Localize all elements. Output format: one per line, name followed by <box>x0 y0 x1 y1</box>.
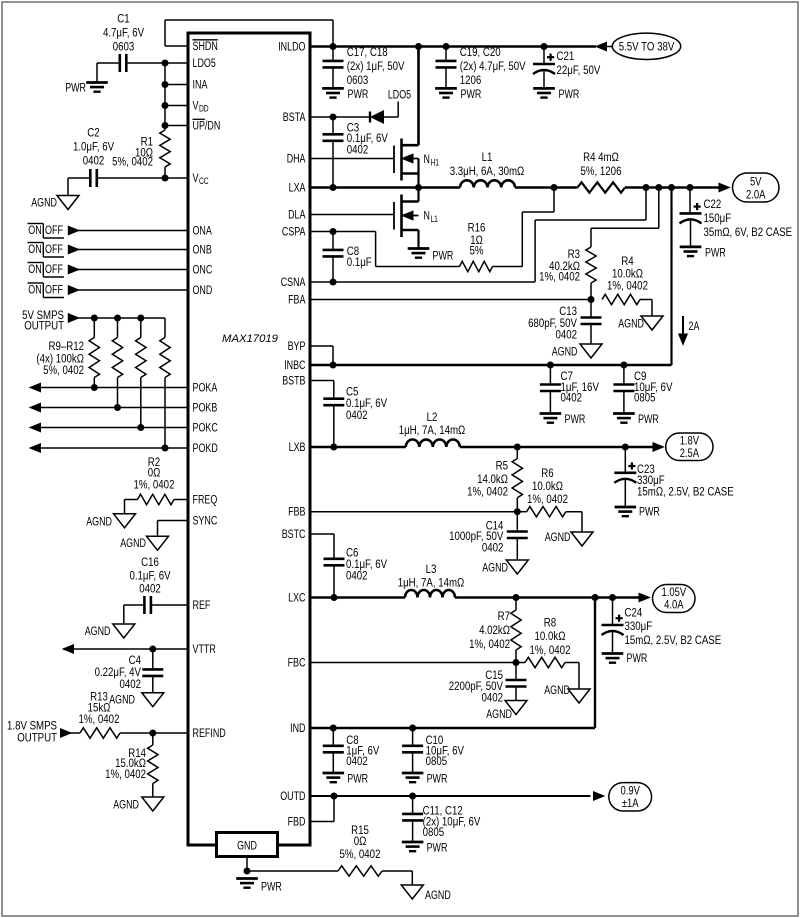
svg-text:0402: 0402 <box>83 154 105 168</box>
ground AGND (C13) <box>552 344 602 358</box>
svg-text:1206: 1206 <box>460 73 482 87</box>
svg-text:ON: ON <box>28 262 41 276</box>
pin BYP <box>288 339 306 353</box>
ground AGND (R6) <box>545 530 593 546</box>
capacitor C1 <box>103 12 145 73</box>
wire DLA <box>310 214 394 216</box>
svg-text:AGND: AGND <box>86 514 112 528</box>
svg-text:0.1μF: 0.1μF <box>347 255 372 269</box>
wire ONA <box>68 226 188 235</box>
node rail/R16 <box>551 184 558 191</box>
wire rail to NH1 drain <box>417 47 420 146</box>
switch ON/OFF (ONA) <box>28 223 65 238</box>
ground PWR (C17) <box>322 87 368 101</box>
svg-text:FBD: FBD <box>288 815 306 829</box>
transistor NH1 <box>394 139 439 188</box>
wire REF <box>124 605 188 624</box>
wire LXB output <box>460 446 654 449</box>
node LDO5 net label <box>388 88 411 102</box>
ground AGND (R8) <box>544 683 590 703</box>
svg-text:±1A: ±1A <box>622 796 639 810</box>
node GND star <box>244 868 251 875</box>
node 5.5V TO 38V input <box>596 33 681 59</box>
svg-text:OFF: OFF <box>45 283 63 297</box>
wire LXC output <box>455 596 640 599</box>
wire FBA <box>310 299 591 301</box>
svg-text:R4 4mΩ: R4 4mΩ <box>583 150 619 164</box>
node POKD/R12 <box>162 445 169 452</box>
ground AGND (R4) <box>618 316 663 331</box>
wire R16 to 5V rail <box>493 188 555 267</box>
ground AGND (C14) <box>482 560 528 575</box>
svg-text:PWR: PWR <box>627 651 648 665</box>
pin POKB <box>193 401 218 415</box>
svg-text:FREQ: FREQ <box>193 493 218 507</box>
resistor R4 (10.0k) <box>602 254 652 316</box>
svg-text:OFF: OFF <box>45 223 63 237</box>
svg-text:H1: H1 <box>430 157 439 167</box>
node rail/R3 <box>655 184 662 191</box>
capacitor C11 C12 <box>402 796 481 842</box>
wire L1 to R4 <box>515 186 578 189</box>
wire POKA <box>30 383 188 392</box>
capacitor C15 <box>449 663 527 705</box>
svg-text:0805: 0805 <box>426 754 448 768</box>
node POKC/R11 <box>137 424 144 431</box>
svg-text:N: N <box>424 208 430 222</box>
svg-text:SHDN: SHDN <box>193 39 218 53</box>
svg-text:0402: 0402 <box>482 540 504 554</box>
capacitor C4 <box>95 649 164 693</box>
node IND/C10 <box>409 725 416 732</box>
ground PWR (C7) <box>540 412 586 426</box>
capacitor C8 (CSPA) <box>323 232 373 283</box>
svg-text:PWR: PWR <box>559 87 580 101</box>
svg-text:MAX17019: MAX17019 <box>222 333 279 345</box>
wire LDO5 bus to VCC <box>165 63 188 130</box>
node BYP/INBC <box>330 362 337 369</box>
svg-text:IND: IND <box>290 721 305 735</box>
svg-text:BSTA: BSTA <box>283 110 306 124</box>
svg-text:ONB: ONB <box>193 243 212 257</box>
node rail/C17 <box>330 43 337 50</box>
wire DHA <box>310 158 394 160</box>
svg-text:0805: 0805 <box>423 825 445 839</box>
capacitor C14 <box>449 512 528 560</box>
ground PWR (C23) <box>615 505 660 519</box>
node rail/C21 <box>541 43 548 50</box>
svg-text:OUTPUT: OUTPUT <box>17 730 57 744</box>
svg-text:DD: DD <box>199 104 209 114</box>
ground PWR (C19) <box>435 87 481 101</box>
svg-text:0402: 0402 <box>482 690 504 704</box>
pin LXB <box>289 440 306 454</box>
svg-text:4.0A: 4.0A <box>664 598 684 612</box>
svg-text:R7: R7 <box>498 609 510 623</box>
ground AGND (C2) <box>31 196 79 210</box>
svg-text:0402: 0402 <box>561 390 583 404</box>
pin ONB <box>193 243 212 257</box>
pin INBC <box>284 358 305 372</box>
wire C2 to AGND <box>68 178 90 196</box>
wire POKD <box>30 444 188 453</box>
node rail R11 <box>137 315 144 322</box>
svg-text:1%, 0402: 1%, 0402 <box>530 643 571 657</box>
svg-text:CSPA: CSPA <box>282 225 306 239</box>
node 5V 2.0A output <box>719 173 779 202</box>
pin VDD <box>193 99 209 114</box>
pin SYNC <box>193 514 218 528</box>
svg-text:C17, C18: C17, C18 <box>347 45 388 59</box>
node 2A current annotation <box>679 316 700 345</box>
switch ON/OFF (ONC) <box>28 262 65 277</box>
svg-text:ONC: ONC <box>193 263 213 277</box>
svg-text:(2x) 4.7μF, 50V: (2x) 4.7μF, 50V <box>460 59 526 73</box>
svg-text:0402: 0402 <box>347 142 369 156</box>
pin FBC <box>288 656 306 670</box>
node 5V SMPS OUTPUT input <box>22 308 79 333</box>
svg-text:0603: 0603 <box>113 40 135 54</box>
node INA junction <box>162 81 169 88</box>
wire 1.05V to IND <box>310 598 595 729</box>
node LXA/NH1 <box>415 184 422 191</box>
switch ON/OFF (ONB) <box>28 242 65 257</box>
diode D1 (LDO5 to BSTA) <box>370 102 398 124</box>
svg-text:L3: L3 <box>426 562 437 576</box>
pin FBB <box>288 505 305 519</box>
wire FBD <box>310 796 334 822</box>
capacitor C16 <box>129 555 171 614</box>
capacitor C10 <box>402 728 464 773</box>
node LDO5/INA junction <box>162 60 169 67</box>
ground AGND (R15) <box>401 885 451 902</box>
wire LDO5 net <box>97 63 188 83</box>
svg-text:FBA: FBA <box>288 293 306 307</box>
svg-text:5%, 0402: 5%, 0402 <box>112 155 153 169</box>
ground PWR (NL1) <box>408 249 454 263</box>
svg-text:2A: 2A <box>689 319 700 333</box>
pin DHA <box>287 152 306 166</box>
svg-text:FBB: FBB <box>288 505 305 519</box>
wire ONC <box>68 265 188 274</box>
svg-text:BYP: BYP <box>288 339 306 353</box>
svg-text:N: N <box>424 152 430 166</box>
svg-text:5V: 5V <box>750 174 762 188</box>
ground PWR (C22) <box>680 245 726 259</box>
svg-text:PWR: PWR <box>427 840 448 854</box>
svg-text:10.0kΩ: 10.0kΩ <box>535 629 566 643</box>
svg-text:GND: GND <box>237 838 257 852</box>
svg-text:LXC: LXC <box>288 591 305 605</box>
wire FBC <box>310 662 516 664</box>
resistor R5 <box>467 447 522 512</box>
svg-text:POKB: POKB <box>193 401 218 415</box>
svg-text:1μH, 7A, 14mΩ: 1μH, 7A, 14mΩ <box>398 575 465 589</box>
capacitor C17 C18 <box>323 45 406 88</box>
wire 5V SMPS rail <box>78 318 165 338</box>
svg-text:DLA: DLA <box>288 208 306 222</box>
resistor R16 <box>460 221 493 272</box>
wire LXB <box>310 446 406 449</box>
svg-text:AGND: AGND <box>618 317 644 331</box>
svg-text:1%, 0402: 1%, 0402 <box>105 767 146 781</box>
svg-text:C16: C16 <box>141 555 159 569</box>
svg-text:C19, C20: C19, C20 <box>460 45 501 59</box>
wire POKC <box>30 423 188 432</box>
capacitor C9 <box>613 365 673 414</box>
svg-text:OFF: OFF <box>45 242 63 256</box>
node VCC junction <box>162 175 169 182</box>
node rail/C19 <box>443 43 450 50</box>
node 5V/INBC feed <box>668 184 675 191</box>
svg-text:AGND: AGND <box>113 798 139 812</box>
resistor R6 <box>517 466 582 532</box>
pin ONC <box>193 263 213 277</box>
capacitor C8 (IND) <box>323 728 380 773</box>
wire INLDO input rail <box>310 45 596 48</box>
pin POKD <box>193 441 218 455</box>
svg-text:35mΩ, 6V, B2 CASE: 35mΩ, 6V, B2 CASE <box>704 225 793 239</box>
svg-text:0402: 0402 <box>346 408 368 422</box>
node LXC/C24 <box>609 594 616 601</box>
pin FREQ <box>193 493 218 507</box>
svg-text:AGND: AGND <box>31 196 57 210</box>
svg-text:R5: R5 <box>496 458 508 472</box>
wire INBC <box>310 364 672 367</box>
svg-text:REF: REF <box>193 598 211 612</box>
resistor R8 <box>516 616 579 690</box>
ground PWR (C11) <box>402 840 448 854</box>
node 0.9V output <box>594 783 652 811</box>
svg-text:POKD: POKD <box>193 441 218 455</box>
svg-text:CSNA: CSNA <box>281 275 306 289</box>
svg-text:LXB: LXB <box>289 440 306 454</box>
capacitor C23 <box>614 447 733 507</box>
pin REF <box>193 598 211 612</box>
capacitor C19 C20 <box>436 45 527 88</box>
pin UP/DN <box>193 119 221 133</box>
node VTTR/C4 <box>149 646 156 653</box>
wire SYNC <box>158 521 189 537</box>
svg-text:0402: 0402 <box>120 677 142 691</box>
resistor R1 <box>112 130 170 178</box>
wire CSPA <box>310 232 460 267</box>
node LXC/IND feed <box>592 594 599 601</box>
node FBB junction <box>514 508 521 515</box>
resistors R9-R12 <box>36 338 170 449</box>
svg-text:AGND: AGND <box>109 693 135 707</box>
svg-text:AGND: AGND <box>552 344 578 358</box>
svg-text:R8: R8 <box>544 616 556 630</box>
node LXB/R5 <box>514 444 521 451</box>
resistor R13 <box>70 690 188 739</box>
svg-text:INA: INA <box>193 78 208 92</box>
ground AGND (C15) <box>486 701 527 721</box>
ground AGND (R14) <box>113 797 164 812</box>
pin FBA <box>288 293 306 307</box>
resistor R3 <box>539 188 659 300</box>
wire FBB <box>310 511 517 513</box>
wire LXC <box>310 596 405 599</box>
svg-text:PWR: PWR <box>347 771 368 785</box>
svg-text:R6: R6 <box>541 466 553 480</box>
capacitor C21 <box>533 47 601 89</box>
svg-text:C21: C21 <box>557 49 575 63</box>
ground AGND (C16) <box>85 624 135 638</box>
svg-text:5%: 5% <box>470 244 484 258</box>
node INBC/C9 <box>620 362 627 369</box>
node INBC/C7 <box>547 362 554 369</box>
ground AGND (C4) <box>109 693 164 707</box>
node LXB/C5 <box>330 444 337 451</box>
pin LDO5 (left) <box>193 56 216 70</box>
svg-text:OFF: OFF <box>45 262 63 276</box>
capacitor C7 <box>540 365 600 414</box>
pin POKA <box>193 381 218 395</box>
ground PWR (C24) <box>602 651 648 665</box>
resistor R7 <box>469 598 521 663</box>
switch ON/OFF (OND) <box>28 283 65 298</box>
svg-text:C2: C2 <box>87 126 99 140</box>
svg-text:L1: L1 <box>430 214 437 224</box>
svg-text:PWR: PWR <box>639 505 660 519</box>
node LXC/R7 <box>513 594 520 601</box>
pin IND <box>290 721 305 735</box>
wire ONB <box>68 245 188 254</box>
svg-text:AGND: AGND <box>482 561 508 575</box>
svg-text:BSTC: BSTC <box>282 527 306 541</box>
pin BSTC <box>282 527 306 541</box>
svg-text:AGND: AGND <box>85 624 111 638</box>
svg-text:1%, 0402: 1%, 0402 <box>467 485 508 499</box>
pin POKC <box>193 421 218 435</box>
wire OUTD <box>310 795 591 797</box>
svg-text:150μF: 150μF <box>704 211 732 225</box>
svg-text:0603: 0603 <box>347 73 369 87</box>
pin FBD <box>288 815 306 829</box>
capacitor C22 <box>680 188 793 247</box>
svg-text:ON: ON <box>28 283 41 297</box>
svg-text:5%, 0402: 5%, 0402 <box>43 363 84 377</box>
svg-text:PWR: PWR <box>461 87 482 101</box>
svg-text:C1: C1 <box>117 12 129 26</box>
inductor L3 <box>398 562 465 598</box>
svg-text:OUTD: OUTD <box>280 789 305 803</box>
pin INA <box>193 78 208 92</box>
pin INLDO <box>278 40 306 54</box>
svg-text:INBC: INBC <box>284 358 305 372</box>
svg-text:10.0kΩ: 10.0kΩ <box>532 479 563 493</box>
node 5V/C22 <box>687 184 694 191</box>
node BSTA/C3 <box>330 114 337 121</box>
svg-text:LDO5: LDO5 <box>193 56 216 70</box>
svg-text:REFIND: REFIND <box>193 726 226 740</box>
node UP/DN junction <box>162 122 169 129</box>
node POKB/R10 <box>114 404 121 411</box>
svg-text:15mΩ, 2.5V, B2 CASE: 15mΩ, 2.5V, B2 CASE <box>637 484 734 498</box>
node REFIND junction <box>149 730 156 737</box>
svg-text:1.0μF, 6V: 1.0μF, 6V <box>73 140 115 154</box>
node rail R9 <box>91 315 98 322</box>
resistor R14 <box>105 733 158 797</box>
node VDD junction <box>162 102 169 109</box>
ground PWR (C1) <box>65 81 108 95</box>
svg-text:OUTPUT: OUTPUT <box>24 318 64 332</box>
svg-text:2.0A: 2.0A <box>746 187 766 201</box>
ground PWR (GND pad) <box>236 879 282 894</box>
wire VCC <box>97 177 188 179</box>
node POKA/R9 <box>91 384 98 391</box>
wire LXA <box>310 186 460 189</box>
ground AGND (R2) <box>86 514 135 529</box>
svg-text:4.02kΩ: 4.02kΩ <box>479 623 510 637</box>
node rail R10 <box>114 315 121 322</box>
svg-text:L1: L1 <box>482 150 493 164</box>
pin SHDN (left) <box>193 39 218 53</box>
ground PWR (C9) <box>613 412 659 426</box>
svg-text:22μF, 50V: 22μF, 50V <box>557 63 601 77</box>
pin OND <box>193 283 213 297</box>
ground AGND (SYNC) <box>120 536 168 550</box>
svg-text:1μH, 7A, 14mΩ: 1μH, 7A, 14mΩ <box>399 423 466 437</box>
svg-text:FBC: FBC <box>288 656 306 670</box>
svg-text:1%, 0402: 1%, 0402 <box>539 270 580 284</box>
pin CSPA <box>282 225 306 239</box>
svg-text:330μF: 330μF <box>625 619 653 633</box>
svg-text:BSTB: BSTB <box>282 374 305 388</box>
wire BYP <box>310 346 333 365</box>
pin REFIND <box>193 726 226 740</box>
svg-text:(2x) 1μF, 50V: (2x) 1μF, 50V <box>347 59 405 73</box>
wire GND to star point <box>246 857 248 872</box>
svg-text:OND: OND <box>193 283 213 297</box>
capacitor C6 (BSTC) <box>310 534 388 598</box>
capacitor C24 <box>602 598 722 654</box>
node 1.8V SMPS OUTPUT input <box>7 718 71 744</box>
node rail/CSNA <box>643 184 650 191</box>
svg-text:PWR: PWR <box>348 87 369 101</box>
node 1.8V 2.5A output <box>653 433 713 461</box>
svg-text:PWR: PWR <box>638 412 659 426</box>
svg-text:1%, 0402: 1%, 0402 <box>79 712 120 726</box>
svg-text:5.5V TO 38V: 5.5V TO 38V <box>619 39 675 53</box>
wire 5V output rail <box>625 186 720 189</box>
wire VTTR <box>63 645 188 654</box>
svg-text:CC: CC <box>199 176 209 186</box>
svg-text:0Ω: 0Ω <box>354 834 367 848</box>
svg-text:AGND: AGND <box>545 530 571 544</box>
node LXC/C6 <box>331 594 338 601</box>
transistor NL1 <box>394 188 438 249</box>
svg-text:1%, 0402: 1%, 0402 <box>134 478 175 492</box>
pin VTTR <box>193 642 216 656</box>
node FBA junction <box>588 296 595 303</box>
svg-text:ON: ON <box>28 223 41 237</box>
svg-text:0402: 0402 <box>139 582 161 596</box>
ground PWR (C10) <box>402 771 448 785</box>
svg-text:1%, 0402: 1%, 0402 <box>469 637 510 651</box>
capacitor C3 <box>323 117 389 188</box>
svg-text:0402: 0402 <box>556 328 578 342</box>
svg-text:4.7μF, 6V: 4.7μF, 6V <box>103 26 145 40</box>
wire BSTA <box>310 116 370 118</box>
wire SHDN loop to input rail <box>165 20 333 47</box>
node rail/NH1 <box>415 43 422 50</box>
node CSNA/C8 <box>330 279 337 286</box>
svg-text:1%, 0402: 1%, 0402 <box>527 492 568 506</box>
svg-text:1%, 0402: 1%, 0402 <box>607 278 648 292</box>
wire 5V to INBC <box>670 188 672 366</box>
